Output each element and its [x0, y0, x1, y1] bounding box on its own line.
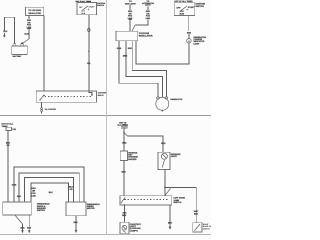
svg-text:SWITCH: SWITCH: [37, 209, 45, 212]
svg-text:RED: RED: [128, 47, 133, 50]
svg-text:LIGHT: LIGHT: [193, 42, 200, 45]
svg-text:LINK: LINK: [31, 194, 36, 197]
svg-text:BLK: BLK: [3, 30, 8, 33]
svg-text:BLK: BLK: [122, 214, 127, 217]
svg-text:C/B: C/B: [12, 128, 16, 131]
svg-text:BLK: BLK: [27, 226, 32, 229]
svg-text:BUZZER: BUZZER: [128, 158, 137, 161]
svg-text:RED: RED: [187, 31, 192, 34]
svg-text:SWITCH: SWITCH: [195, 5, 204, 8]
svg-text:LINK: LINK: [146, 17, 151, 20]
svg-text:BLK: BLK: [20, 226, 25, 229]
svg-text:START: START: [188, 6, 195, 9]
svg-text:BRN: BRN: [123, 55, 128, 58]
svg-text:START: START: [89, 5, 96, 8]
svg-text:RED: RED: [122, 141, 127, 144]
svg-text:TO VOLTAGE: TO VOLTAGE: [28, 9, 41, 12]
svg-text:BLK: BLK: [49, 191, 54, 194]
svg-text:GENERATOR: GENERATOR: [170, 98, 183, 101]
svg-text:RED: RED: [161, 142, 166, 145]
svg-text:BLK: BLK: [168, 221, 173, 224]
svg-text:BATTERY: BATTERY: [13, 55, 22, 58]
svg-text:MOTOR: MOTOR: [87, 207, 95, 210]
svg-text:BLK: BLK: [25, 33, 30, 36]
svg-text:SWITCH: SWITCH: [203, 227, 211, 230]
svg-text:TO STARTER: TO STARTER: [45, 108, 57, 111]
svg-text:LIGHT: LIGHT: [145, 4, 151, 7]
svg-text:BLK: BLK: [122, 171, 127, 174]
svg-text:SWITCH: SWITCH: [173, 201, 181, 204]
svg-text:REGULATOR: REGULATOR: [139, 34, 153, 37]
svg-text:BLK: BLK: [17, 195, 22, 198]
svg-text:BLK: BLK: [194, 213, 199, 216]
svg-text:RUN: RUN: [180, 12, 185, 15]
svg-text:BLK: BLK: [74, 221, 79, 224]
svg-text:LIGHT: LIGHT: [171, 155, 178, 158]
svg-text:GRN: GRN: [117, 47, 122, 50]
svg-text:REGULATOR: REGULATOR: [28, 12, 41, 15]
svg-text:GRN: GRN: [12, 184, 17, 187]
svg-text:RELAY: RELAY: [98, 94, 105, 97]
svg-text:RUN: RUN: [81, 12, 86, 15]
svg-text:GEN LIGHT: GEN LIGHT: [125, 2, 137, 5]
svg-text:COMPT): COMPT): [130, 229, 138, 232]
svg-text:SWITCH: SWITCH: [97, 4, 105, 7]
